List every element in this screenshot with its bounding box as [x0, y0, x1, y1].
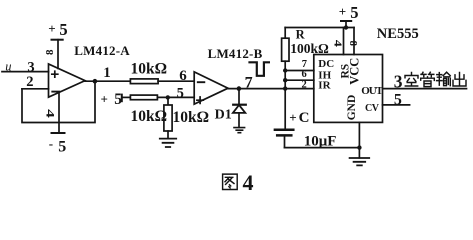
svg-text:10kΩ: 10kΩ	[131, 108, 168, 125]
svg-text:LM412-B: LM412-B	[208, 46, 263, 61]
svg-text:6: 6	[179, 68, 187, 84]
svg-text:+: +	[339, 4, 346, 19]
svg-text:10kΩ: 10kΩ	[131, 61, 168, 78]
svg-text:10μF: 10μF	[304, 133, 337, 149]
svg-text:NE555: NE555	[377, 26, 419, 42]
svg-text:LM412-A: LM412-A	[74, 43, 130, 58]
svg-text:u: u	[5, 59, 11, 73]
svg-text:6: 6	[302, 69, 307, 80]
svg-text:5: 5	[58, 139, 66, 156]
svg-text:100kΩ: 100kΩ	[290, 41, 329, 56]
svg-text:5: 5	[177, 86, 184, 102]
svg-text:3: 3	[394, 72, 403, 92]
svg-text:8: 8	[347, 41, 358, 46]
svg-text:1: 1	[103, 65, 111, 81]
svg-text:C: C	[299, 110, 310, 126]
svg-text:3: 3	[27, 59, 34, 75]
svg-text:7: 7	[302, 59, 307, 70]
svg-text:4: 4	[243, 170, 254, 195]
svg-text:R: R	[296, 28, 306, 42]
svg-text:-: -	[49, 136, 53, 151]
svg-text:2: 2	[302, 80, 307, 91]
svg-text:5: 5	[394, 91, 402, 108]
svg-text:CV: CV	[365, 103, 380, 114]
svg-text:GND: GND	[346, 95, 358, 121]
svg-text:+: +	[48, 21, 55, 36]
svg-text:10kΩ: 10kΩ	[173, 109, 210, 126]
svg-text:+: +	[101, 91, 108, 106]
svg-text:D1: D1	[215, 107, 232, 122]
svg-text:5: 5	[114, 91, 122, 108]
svg-text:+: +	[289, 110, 296, 125]
svg-text:2: 2	[26, 74, 33, 90]
svg-text:7: 7	[245, 74, 253, 91]
svg-text:4: 4	[332, 40, 344, 47]
svg-text:4: 4	[43, 109, 56, 118]
svg-text:IR: IR	[318, 79, 331, 91]
svg-text:OUT: OUT	[361, 85, 384, 97]
svg-text:VCC: VCC	[347, 58, 361, 85]
svg-text:DC: DC	[318, 58, 334, 70]
svg-text:5: 5	[350, 3, 358, 22]
svg-text:5: 5	[59, 20, 67, 39]
svg-text:8: 8	[44, 49, 56, 55]
